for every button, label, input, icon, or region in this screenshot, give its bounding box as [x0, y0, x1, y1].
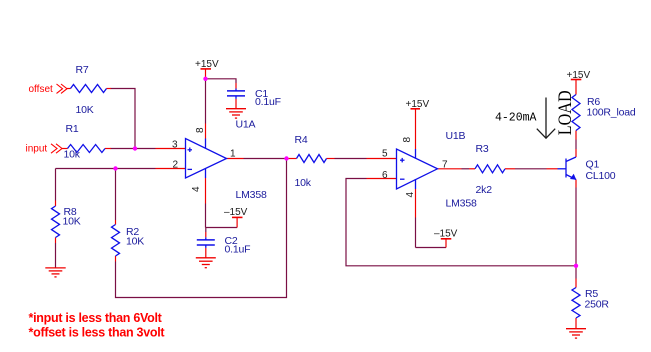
svg-text:R4: R4	[295, 134, 308, 146]
svg-text:R3: R3	[476, 143, 489, 155]
svg-text:offset: offset	[29, 84, 53, 95]
svg-text:2: 2	[173, 160, 179, 171]
svg-text:6: 6	[382, 170, 388, 181]
svg-text:LM358: LM358	[236, 189, 267, 201]
svg-text:CL100: CL100	[586, 170, 616, 182]
svg-text:8: 8	[195, 127, 206, 133]
svg-text:4: 4	[191, 186, 202, 192]
svg-text:2k2: 2k2	[476, 184, 493, 196]
svg-text:–15V: –15V	[224, 207, 248, 218]
svg-text:+15V: +15V	[567, 70, 591, 81]
svg-text:250R: 250R	[585, 299, 610, 311]
svg-text:R7: R7	[76, 64, 89, 76]
svg-text:10K: 10K	[126, 236, 144, 248]
svg-text:1: 1	[230, 149, 236, 160]
svg-text:8: 8	[402, 137, 413, 143]
svg-text:10k: 10k	[64, 149, 81, 161]
svg-text:U1A: U1A	[236, 119, 256, 131]
svg-text:R1: R1	[66, 123, 79, 135]
svg-text:Q1: Q1	[586, 159, 600, 171]
svg-text:5: 5	[382, 149, 388, 160]
svg-text:7: 7	[442, 159, 448, 170]
svg-text:LOAD: LOAD	[555, 90, 576, 135]
svg-text:0.1uF: 0.1uF	[225, 244, 251, 256]
svg-text:100R_load: 100R_load	[587, 107, 636, 119]
svg-text:4: 4	[405, 192, 416, 198]
svg-text:0.1uF: 0.1uF	[255, 96, 281, 108]
svg-text:input: input	[26, 143, 48, 154]
svg-text:+15V: +15V	[406, 99, 430, 110]
svg-text:+15V: +15V	[195, 59, 219, 70]
svg-text:LM358: LM358	[446, 198, 477, 210]
svg-text:10K: 10K	[63, 216, 81, 228]
svg-text:–15V: –15V	[434, 229, 458, 240]
svg-text:10k: 10k	[295, 177, 312, 189]
svg-text:3: 3	[172, 140, 178, 151]
svg-text:U1B: U1B	[446, 130, 466, 142]
svg-text:*input is less than 6Volt: *input is less than 6Volt	[29, 311, 163, 325]
svg-text:4-20mA: 4-20mA	[495, 112, 537, 125]
svg-text:10K: 10K	[76, 104, 94, 116]
svg-text:*offset is less than 3volt: *offset is less than 3volt	[29, 325, 166, 339]
